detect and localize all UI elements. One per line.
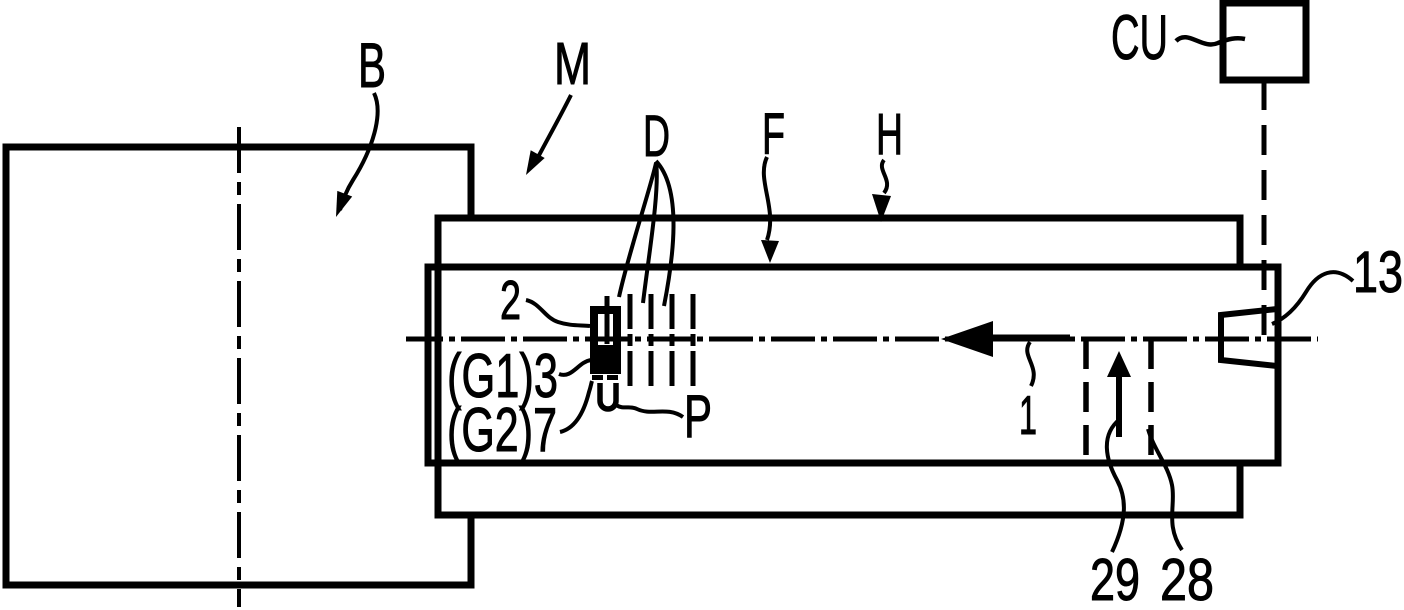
svg-text:B: B <box>358 31 386 101</box>
svg-text:(G2)7: (G2)7 <box>447 396 557 465</box>
svg-text:H: H <box>876 102 903 167</box>
svg-text:29: 29 <box>1090 547 1140 610</box>
svg-text:2: 2 <box>500 269 521 331</box>
svg-text:D: D <box>643 104 670 169</box>
svg-text:F: F <box>762 102 785 167</box>
svg-text:CU: CU <box>1111 3 1168 73</box>
svg-text:13: 13 <box>1353 240 1403 305</box>
svg-text:M: M <box>554 31 591 97</box>
svg-text:1: 1 <box>1019 384 1037 446</box>
svg-text:28: 28 <box>1160 547 1214 610</box>
svg-text:P: P <box>684 383 712 450</box>
